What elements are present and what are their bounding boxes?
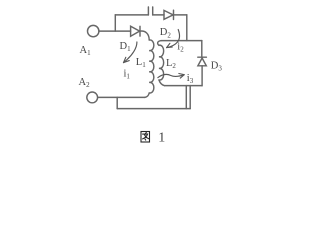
terminal A2 circle bbox=[87, 92, 98, 103]
wire riser left x186 bbox=[185, 86, 187, 109]
capacitor C plates bbox=[148, 7, 152, 15]
wire capacitor to D2 bbox=[153, 14, 164, 16]
svg-text:D2: D2 bbox=[160, 27, 172, 39]
node junction top-left vertical bbox=[114, 15, 116, 31]
current arrow i1 bbox=[124, 42, 137, 63]
svg-text:i1: i1 bbox=[124, 69, 131, 81]
wire D3 branch bottom bbox=[201, 66, 203, 86]
inductor L1 coil bbox=[149, 40, 154, 93]
wire junction bottom-left vertical bbox=[116, 97, 118, 108]
diode D3 bbox=[198, 57, 207, 66]
diode D1 bbox=[131, 26, 140, 36]
wire D2 drop vertical bbox=[186, 15, 188, 41]
wire A1 to junction and D1 anode bbox=[99, 30, 131, 32]
wire L2 top curve bbox=[158, 41, 161, 46]
svg-text:A1: A1 bbox=[80, 45, 92, 57]
current arrow i3 bbox=[158, 74, 184, 77]
terminal A1 circle bbox=[88, 25, 99, 36]
wire loop top bbox=[161, 40, 202, 42]
wire top from junction to capacitor bbox=[115, 14, 148, 16]
wire loop bottom bbox=[165, 85, 202, 87]
svg-text:L1: L1 bbox=[136, 57, 146, 69]
diode D2 bbox=[164, 10, 174, 19]
wire D3 branch top bbox=[201, 41, 203, 57]
svg-text:A2: A2 bbox=[79, 77, 91, 89]
wire L2 bottom curve bbox=[159, 80, 164, 86]
svg-text:i3: i3 bbox=[187, 73, 194, 85]
current arrow i2 bbox=[167, 30, 180, 48]
svg-text:L2: L2 bbox=[166, 58, 176, 70]
inductor L2 coil bbox=[159, 45, 164, 80]
caption figure 1 : hanzi tu bbox=[141, 132, 150, 143]
wire riser right x190 bbox=[189, 86, 191, 109]
wire A2 to L1 bottom bbox=[98, 96, 145, 98]
svg-text:1: 1 bbox=[158, 131, 165, 146]
svg-text:i2: i2 bbox=[177, 41, 184, 53]
wire bottom rail bbox=[117, 108, 190, 110]
svg-text:D1: D1 bbox=[120, 41, 132, 53]
svg-text:D3: D3 bbox=[211, 61, 223, 73]
wire D2 to corner bbox=[174, 14, 187, 16]
wire L1 bottom to A2 wire bbox=[145, 93, 149, 97]
wire D1 hook into L1 top bbox=[140, 31, 149, 40]
